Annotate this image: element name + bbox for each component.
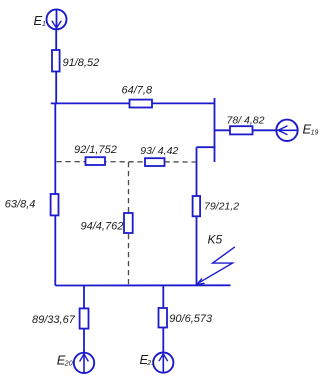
svg-text:94/4,762: 94/4,762 bbox=[81, 220, 124, 232]
svg-text:90/6,573: 90/6,573 bbox=[169, 313, 213, 325]
svg-text:93/ 4,42: 93/ 4,42 bbox=[140, 145, 178, 157]
resistor R92 bbox=[86, 157, 106, 165]
emf source E19 bbox=[276, 120, 297, 141]
switch K5 arrow bbox=[197, 247, 235, 285]
svg-text:92/1,752: 92/1,752 bbox=[74, 144, 117, 156]
resistor R94 bbox=[124, 213, 133, 233]
resistor R78 bbox=[230, 126, 253, 134]
resistor R63 bbox=[51, 194, 59, 215]
wire E19 branch bbox=[215, 129, 277, 131]
emf source E21 bbox=[153, 353, 173, 373]
label E21 bbox=[140, 352, 156, 367]
svg-text:20: 20 bbox=[64, 361, 73, 368]
dashed link vertical bbox=[128, 162, 130, 285]
svg-text:89/33,67: 89/33,67 bbox=[32, 314, 76, 326]
wire left rail bbox=[54, 103, 56, 285]
svg-text:21: 21 bbox=[146, 360, 155, 367]
wire R91 to top bus bbox=[55, 72, 57, 104]
svg-text:64/7,8: 64/7,8 bbox=[122, 85, 153, 97]
label E19 bbox=[303, 122, 319, 137]
svg-text:78/ 4,82: 78/ 4,82 bbox=[227, 115, 265, 127]
resistor R64 bbox=[130, 100, 153, 108]
wire top bus bbox=[51, 102, 215, 104]
node bar right stub bbox=[214, 98, 216, 162]
resistor R89 bbox=[80, 308, 89, 328]
wire bottom bus bbox=[55, 284, 230, 286]
label E1 bbox=[34, 13, 47, 28]
svg-text:63/8,4: 63/8,4 bbox=[5, 199, 36, 211]
svg-text:K5: K5 bbox=[208, 233, 223, 247]
wire E1 to R91 bbox=[55, 30, 57, 50]
svg-text:1: 1 bbox=[42, 21, 46, 28]
svg-text:91/8,52: 91/8,52 bbox=[63, 57, 100, 69]
resistor R91 bbox=[52, 50, 60, 72]
wire jog bbox=[197, 146, 216, 148]
emf source E20 bbox=[74, 353, 94, 373]
resistor R93 bbox=[145, 158, 165, 166]
emf source E1 bbox=[47, 9, 67, 29]
wire E20 branch bbox=[83, 286, 85, 353]
resistor R79 bbox=[193, 196, 201, 216]
wire right branch bbox=[196, 147, 198, 285]
label E20 bbox=[57, 353, 73, 368]
dashed link horizontal bbox=[57, 161, 197, 163]
wire E21 branch bbox=[162, 286, 164, 353]
svg-text:19: 19 bbox=[311, 130, 319, 137]
resistor R90 bbox=[159, 308, 168, 328]
svg-text:79/21,2: 79/21,2 bbox=[204, 200, 239, 212]
